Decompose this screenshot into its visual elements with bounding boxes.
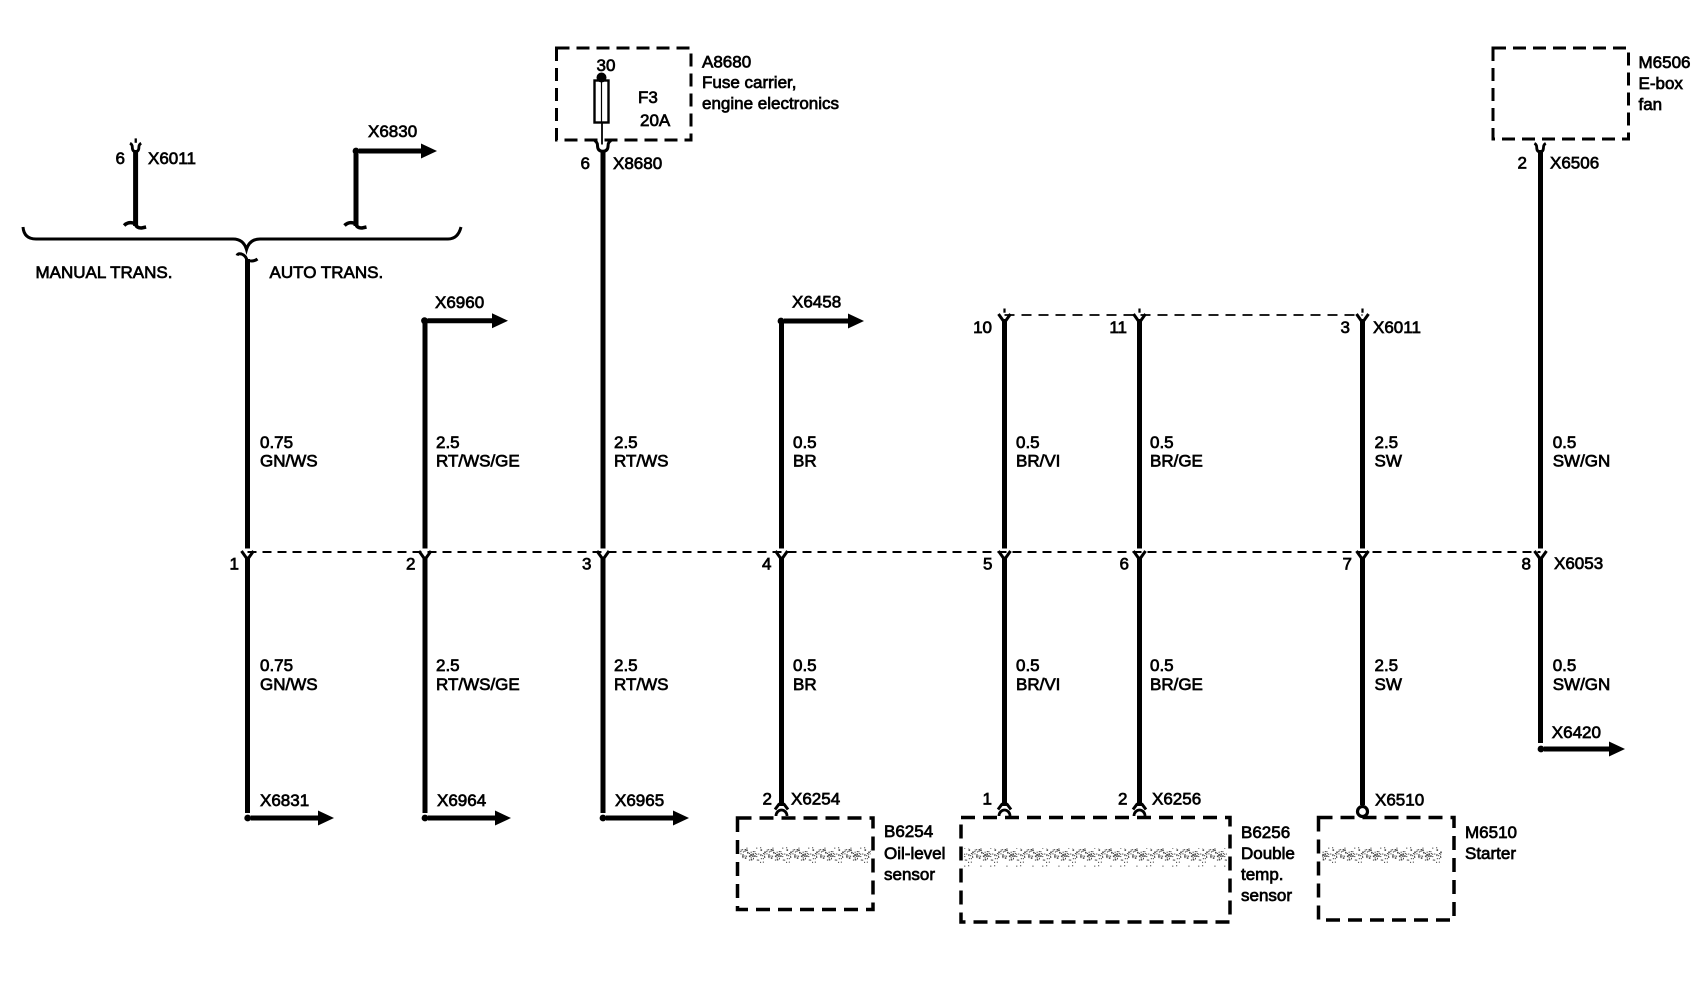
node 7 junction on bus X6053 [1357,551,1369,560]
svg-text:SW/GN: SW/GN [1553,675,1611,694]
svg-text:BR: BR [793,675,817,694]
svg-text:X6011: X6011 [1373,318,1421,337]
wire W2 2.5 RT/WS/GE upper segment [423,322,428,549]
svg-text:E-box: E-box [1639,74,1684,93]
svg-text:X6830: X6830 [368,122,417,141]
wire to X6965 with arrow [600,815,607,822]
node 6 junction on bus X6053 [1134,551,1146,560]
svg-text:BR/GE: BR/GE [1150,675,1203,694]
svg-text:Oil-level: Oil-level [884,844,945,863]
connector X6506 fork symbol [1534,143,1545,151]
svg-text:8: 8 [1522,555,1531,574]
fuse F3 symbol [595,73,609,123]
svg-text:1: 1 [983,790,992,809]
node 4 junction on bus X6053 [776,551,788,560]
connector X6510 ring symbol [1358,807,1368,817]
wire W7 lower segment [1360,557,1365,806]
svg-text:2: 2 [406,555,415,574]
svg-text:0.5: 0.5 [1553,656,1577,675]
svg-text:1: 1 [230,555,239,574]
svg-text:2.5: 2.5 [1375,433,1399,452]
svg-text:0.75: 0.75 [260,656,293,675]
wire to X6964 with arrow [422,815,429,822]
node 1 junction on bus X6053 [242,551,254,560]
svg-text:Fuse carrier,: Fuse carrier, [702,73,796,92]
motor M6506 E-box fan dashed box [1493,48,1629,139]
wire W6 lower segment [1137,557,1142,807]
svg-text:F3: F3 [638,88,658,107]
svg-text:0.75: 0.75 [260,433,293,452]
wire W1 0.75 GN/WS upper segment with top curl [237,254,258,549]
thin lead from fuse to connector X8680 [601,122,603,145]
connector stub X6011 (top left) [124,138,146,228]
connector pin 1 of X6256 symbol [998,804,1003,810]
svg-text:2: 2 [1118,790,1127,809]
svg-text:SW: SW [1375,452,1402,471]
node 2 junction on bus X6053 [419,551,431,560]
dashed link between nodes 10, 11 and 3 of X6011 [1005,314,1363,316]
node 3 connector at top of W7 [1357,314,1369,323]
svg-text:RT/WS: RT/WS [614,675,668,694]
wire W3 2.5 RT/WS upper segment [601,152,606,549]
svg-text:B6256: B6256 [1241,823,1290,842]
svg-text:X6053: X6053 [1554,554,1603,573]
wire W5 0.5 BR/VI upper segment [1002,319,1007,549]
svg-text:BR/VI: BR/VI [1016,675,1060,694]
svg-text:B6254: B6254 [884,822,933,841]
svg-text:2: 2 [763,790,772,809]
svg-text:20A: 20A [640,111,671,130]
svg-text:Double: Double [1241,844,1295,863]
svg-text:2.5: 2.5 [436,433,460,452]
svg-text:6: 6 [1120,555,1129,574]
wire W3 lower segment [601,557,606,814]
svg-text:X6506: X6506 [1550,154,1599,173]
svg-text:MANUAL TRANS.: MANUAL TRANS. [36,263,173,282]
svg-text:RT/WS: RT/WS [614,452,668,471]
svg-text:X6831: X6831 [260,791,309,810]
svg-text:0.5: 0.5 [1016,656,1040,675]
svg-text:11: 11 [1109,318,1127,337]
sensor B6254 oil-level sensor dashed box [738,818,874,910]
svg-text:0.5: 0.5 [1150,656,1174,675]
connector X6254 symbol [775,804,780,810]
svg-text:M6506: M6506 [1639,53,1691,72]
fuse carrier A8680 dashed box [557,48,692,140]
svg-text:X6965: X6965 [615,791,664,810]
svg-text:SW/GN: SW/GN [1553,452,1611,471]
connector X8680 cup symbol [595,141,612,152]
svg-text:0.5: 0.5 [793,656,817,675]
svg-text:fan: fan [1639,95,1663,114]
wire W6 0.5 BR/GE upper segment [1137,319,1142,549]
svg-text:X6011: X6011 [148,149,196,168]
sensor B6256 double temp sensor dashed box [961,818,1230,923]
wire to X6458 with arrow [778,318,785,325]
wire to X6960 with arrow [421,317,428,324]
svg-text:0.5: 0.5 [1016,433,1040,452]
svg-text:X6420: X6420 [1552,723,1601,742]
svg-text:0.5: 0.5 [793,433,817,452]
svg-text:5: 5 [983,555,992,574]
svg-text:X8680: X8680 [613,154,662,173]
svg-text:2.5: 2.5 [436,656,460,675]
connector pin 2 of X6256 symbol [1133,804,1138,810]
svg-text:2.5: 2.5 [614,433,638,452]
wire W1 lower segment [245,557,250,814]
wire W4 0.5 BR upper segment [779,322,784,549]
svg-text:RT/WS/GE: RT/WS/GE [436,452,520,471]
wire to X6420 with arrow [1538,746,1545,753]
svg-text:BR/VI: BR/VI [1016,452,1060,471]
svg-text:X6964: X6964 [437,791,486,810]
svg-text:X6960: X6960 [435,293,484,312]
wire W4 lower segment [779,557,784,807]
bus X6053 dashed line [248,551,1541,553]
svg-text:3: 3 [582,555,591,574]
svg-text:10: 10 [973,318,992,337]
svg-text:Starter: Starter [1465,844,1516,863]
motor M6510 starter dashed box [1319,818,1455,921]
node 10 connector at top of W5 [999,314,1011,323]
wire W2 lower segment [423,557,428,814]
svg-text:BR: BR [793,452,817,471]
wire to X6830 with arrow [345,144,438,229]
svg-text:30: 30 [597,56,616,75]
svg-text:GN/WS: GN/WS [260,675,318,694]
svg-text:2.5: 2.5 [614,656,638,675]
svg-text:2: 2 [1518,154,1527,173]
svg-text:BR/GE: BR/GE [1150,452,1203,471]
brace manual/auto trans [23,227,461,250]
node 3 junction on bus X6053 [597,551,609,560]
scan noise band in B6254 [740,847,871,865]
svg-text:2.5: 2.5 [1375,656,1399,675]
svg-text:6: 6 [581,154,590,173]
svg-text:0.5: 0.5 [1553,433,1577,452]
svg-text:sensor: sensor [1241,886,1292,905]
node 8 junction on bus X6053 [1535,551,1547,560]
svg-text:6: 6 [116,149,125,168]
svg-text:AUTO TRANS.: AUTO TRANS. [270,263,384,282]
wire W7 2.5 SW upper segment [1360,319,1365,549]
svg-text:RT/WS/GE: RT/WS/GE [436,675,520,694]
svg-text:M6510: M6510 [1465,823,1517,842]
svg-text:GN/WS: GN/WS [260,452,318,471]
svg-text:A8680: A8680 [702,53,751,72]
svg-text:engine electronics: engine electronics [702,94,839,113]
svg-text:X6254: X6254 [791,790,840,809]
wire W8 lower segment [1538,557,1543,744]
svg-text:7: 7 [1343,555,1352,574]
wire W8 0.5 SW/GN upper segment [1538,150,1543,549]
svg-text:sensor: sensor [884,865,935,884]
wire W5 lower segment [1002,557,1007,807]
svg-text:temp.: temp. [1241,865,1284,884]
node 5 junction on bus X6053 [999,551,1011,560]
svg-text:3: 3 [1341,318,1350,337]
svg-text:X6458: X6458 [792,293,841,312]
svg-text:0.5: 0.5 [1150,433,1174,452]
wire to X6831 with arrow [244,815,251,822]
node 11 connector at top of W6 [1134,314,1146,323]
svg-text:X6510: X6510 [1375,791,1424,810]
scan noise band in M6510 [1322,845,1442,863]
svg-text:X6256: X6256 [1152,790,1201,809]
svg-text:SW: SW [1375,675,1402,694]
svg-text:4: 4 [762,555,771,574]
scan noise band in B6256 [964,848,1227,867]
